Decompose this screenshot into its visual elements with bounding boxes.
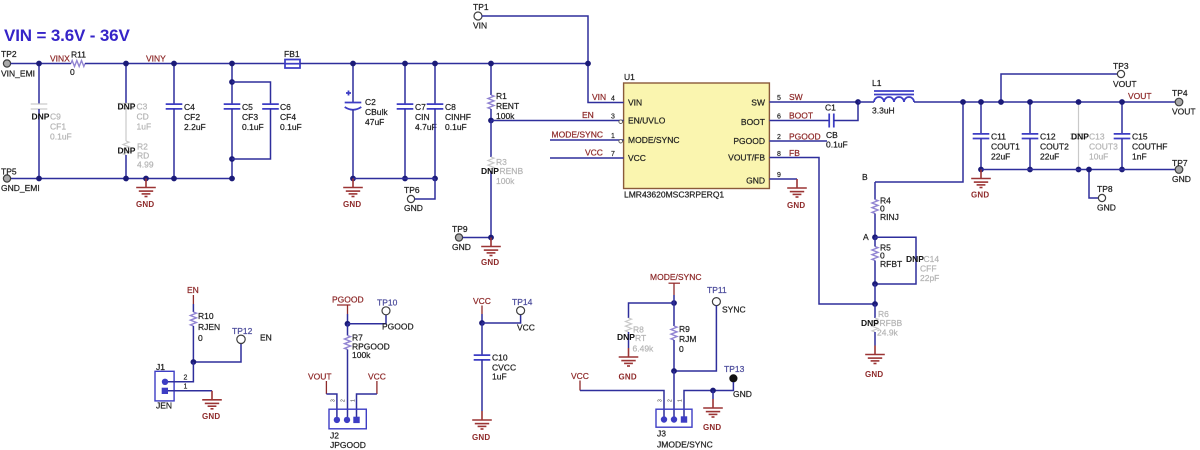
svg-text:EN/UVLO: EN/UVLO [628, 116, 666, 126]
svg-text:RT: RT [635, 333, 646, 343]
svg-text:SW: SW [789, 92, 803, 102]
ground R8 [619, 348, 639, 382]
resistor R3 (DNP ghost) [481, 121, 523, 238]
capacitor C4 [166, 61, 206, 182]
svg-text:B: B [862, 172, 868, 182]
svg-text:VIN_EMI: VIN_EMI [1, 69, 35, 79]
test point TP14 [479, 297, 535, 333]
wire VIN rail [300, 63, 588, 65]
svg-text:RJEN: RJEN [198, 322, 220, 332]
svg-text:4.7uF: 4.7uF [415, 122, 437, 132]
svg-text:VINX: VINX [50, 54, 70, 64]
svg-text:CF3: CF3 [242, 112, 258, 122]
svg-text:TP3: TP3 [1113, 61, 1129, 71]
svg-text:TP2: TP2 [1, 49, 17, 59]
svg-text:VOUT/FB: VOUT/FB [728, 153, 765, 163]
svg-text:1: 1 [184, 383, 188, 390]
test point TP13 [684, 364, 752, 419]
wire output GND rail [981, 169, 1175, 171]
test point TP2 [1, 49, 35, 79]
test point TP4 [1172, 88, 1196, 117]
svg-text:GND: GND [136, 200, 154, 209]
U1 pin names [628, 98, 679, 164]
wire SW pin 5 [769, 92, 858, 102]
svg-text:9: 9 [777, 172, 781, 179]
svg-text:VIN: VIN [628, 98, 642, 108]
svg-text:3.3uH: 3.3uH [872, 106, 895, 116]
svg-text:0: 0 [70, 67, 75, 77]
svg-text:C1: C1 [825, 103, 836, 113]
svg-text:PGOOD: PGOOD [382, 322, 414, 332]
svg-text:MODE/SYNC: MODE/SYNC [650, 272, 701, 282]
capacitor C1 [825, 99, 861, 149]
test point TP9 [452, 224, 494, 252]
svg-text:GND: GND [481, 258, 499, 267]
svg-text:22pF: 22pF [920, 273, 939, 283]
svg-text:TP4: TP4 [1172, 88, 1188, 98]
svg-text:GND_EMI: GND_EMI [1, 183, 40, 193]
test point TP5 [1, 167, 40, 194]
node EN label [187, 285, 199, 304]
svg-text:RJM: RJM [679, 334, 696, 344]
svg-text:TP1: TP1 [473, 2, 489, 12]
svg-text:JPGOOD: JPGOOD [330, 440, 366, 450]
svg-text:VIN: VIN [592, 92, 606, 102]
node PGOOD label [332, 295, 364, 315]
svg-text:CIN: CIN [415, 112, 430, 122]
wire J1 pin1 to gnd [168, 390, 212, 392]
svg-text:C8: C8 [445, 102, 456, 112]
svg-text:LMR43620MSC3RPERQ1: LMR43620MSC3RPERQ1 [624, 190, 724, 200]
svg-text:MODE/SYNC: MODE/SYNC [628, 135, 679, 145]
svg-text:TP11: TP11 [707, 285, 727, 295]
svg-text:0.1uF: 0.1uF [445, 122, 467, 132]
svg-text:0: 0 [198, 333, 203, 343]
svg-text:J3: J3 [657, 429, 666, 439]
svg-text:GND: GND [343, 200, 361, 209]
svg-text:0.1uF: 0.1uF [280, 122, 302, 132]
connector J1 [155, 362, 188, 411]
svg-text:10uF: 10uF [1089, 152, 1108, 162]
svg-text:FB: FB [789, 148, 800, 158]
svg-text:MODE/SYNC: MODE/SYNC [552, 130, 603, 140]
capacitor C8 [427, 61, 471, 182]
ground output [971, 170, 991, 200]
svg-text:GND: GND [452, 242, 471, 252]
svg-text:CINHF: CINHF [445, 112, 471, 122]
svg-text:6: 6 [777, 114, 781, 121]
svg-text:R1: R1 [496, 91, 507, 101]
svg-text:GND: GND [202, 412, 220, 421]
svg-text:VOUT: VOUT [1128, 91, 1152, 101]
test point TP8 [1086, 167, 1116, 213]
capacitor C7 [397, 61, 437, 182]
resistor R4 [872, 182, 899, 237]
resistor R7 [345, 324, 390, 418]
svg-text:3: 3 [658, 399, 664, 402]
svg-text:JEN: JEN [156, 401, 172, 411]
node B branch wire [862, 99, 966, 182]
svg-text:DNP: DNP [481, 166, 499, 176]
svg-text:J2: J2 [330, 431, 339, 441]
svg-text:C6: C6 [280, 102, 291, 112]
svg-text:CB: CB [826, 130, 838, 140]
svg-text:22uF: 22uF [991, 152, 1010, 162]
connector J3 [656, 399, 713, 450]
svg-text:VINY: VINY [146, 54, 166, 64]
ground J3 [703, 391, 723, 433]
svg-text:DNP: DNP [906, 254, 924, 264]
svg-text:EN: EN [582, 110, 594, 120]
svg-text:GND: GND [971, 191, 989, 200]
wire VCC to J3 pin3 [580, 391, 664, 420]
node A [863, 232, 878, 242]
svg-text:1uF: 1uF [492, 372, 507, 382]
node VCC label [473, 296, 491, 314]
svg-text:VCC: VCC [368, 372, 386, 382]
svg-text:TP6: TP6 [404, 185, 420, 195]
svg-text:CFF: CFF [920, 264, 937, 274]
resistor R11 [70, 50, 86, 78]
svg-text:VCC: VCC [473, 296, 491, 306]
capacitor C6 [232, 82, 302, 159]
svg-text:BOOT: BOOT [789, 111, 813, 121]
wire mid bottom rail [353, 178, 435, 180]
wire BOOT pin 6 [769, 111, 829, 121]
svg-text:GND: GND [787, 201, 805, 210]
svg-text:47uF: 47uF [365, 117, 384, 127]
ground J1 [202, 391, 222, 421]
connector J2 [329, 399, 366, 450]
svg-text:PGOOD: PGOOD [332, 295, 364, 305]
wire VIN pin 4 [585, 61, 624, 103]
svg-text:22uF: 22uF [1040, 152, 1059, 162]
svg-text:EN: EN [260, 333, 272, 343]
test point TP6 [404, 179, 435, 214]
svg-text:CF4: CF4 [280, 112, 296, 122]
svg-text:1nF: 1nF [1132, 152, 1147, 162]
wire FB node [872, 284, 878, 307]
svg-text:GND: GND [1097, 203, 1116, 213]
svg-text:0.1uF: 0.1uF [50, 132, 72, 142]
test point TP10 [345, 298, 414, 332]
node VCC label (J3) [571, 371, 589, 391]
svg-text:1: 1 [678, 399, 684, 402]
svg-text:DNP: DNP [617, 332, 635, 342]
wire MODE node [629, 295, 677, 326]
svg-text:DNP: DNP [32, 112, 50, 122]
svg-text:VCC: VCC [585, 148, 603, 158]
svg-text:RENT: RENT [496, 101, 519, 111]
svg-text:C10: C10 [492, 353, 508, 363]
wire VCC to J2 pin1 [357, 394, 377, 418]
inductor L1 [858, 78, 963, 116]
svg-text:TP5: TP5 [1, 167, 17, 177]
svg-text:FB1: FB1 [284, 49, 300, 59]
svg-text:1uF: 1uF [137, 122, 152, 132]
svg-text:TP12: TP12 [232, 326, 253, 336]
svg-text:4.99: 4.99 [137, 160, 154, 170]
resistor R5 [872, 237, 902, 284]
svg-text:RENB: RENB [500, 166, 524, 176]
capacitor C14 (DNP ghost, parallel loop) [872, 237, 939, 287]
svg-text:CF2: CF2 [184, 112, 200, 122]
capacitor C11 [973, 99, 1020, 172]
ground FB [865, 346, 885, 380]
svg-text:GND: GND [1172, 174, 1191, 184]
svg-text:COUTHF: COUTHF [1132, 142, 1167, 152]
resistor R9 [671, 324, 696, 371]
svg-text:TP9: TP9 [452, 224, 468, 234]
svg-text:0.1uF: 0.1uF [826, 140, 848, 150]
svg-text:7: 7 [611, 151, 615, 158]
svg-text:SW: SW [751, 98, 765, 108]
svg-text:VOUT: VOUT [1172, 107, 1196, 117]
svg-text:5: 5 [777, 95, 781, 102]
svg-text:C13: C13 [1089, 132, 1105, 142]
node MODE/SYNC label [650, 272, 701, 295]
test point TP1 [473, 2, 489, 31]
svg-text:R11: R11 [71, 50, 86, 60]
svg-text:2: 2 [184, 375, 188, 382]
svg-text:CF1: CF1 [50, 122, 66, 132]
svg-text:TP10: TP10 [377, 298, 398, 308]
svg-text:BOOT: BOOT [741, 117, 765, 127]
svg-text:R10: R10 [198, 311, 214, 321]
ground U1 pin 9 [769, 172, 806, 210]
wire bottom EMI rail [7, 178, 232, 180]
resistor R6 (DNP ghost) [861, 304, 903, 346]
svg-text:TP14: TP14 [512, 297, 533, 307]
svg-text:100k: 100k [352, 350, 371, 360]
svg-text:2.2uF: 2.2uF [184, 122, 206, 132]
wire VINY rail [85, 63, 285, 65]
svg-text:2: 2 [777, 134, 781, 141]
svg-text:VCC: VCC [517, 323, 535, 333]
svg-text:C5: C5 [242, 102, 253, 112]
svg-text:GND: GND [733, 389, 752, 399]
svg-text:U1: U1 [624, 72, 635, 82]
ground EMI [136, 176, 156, 209]
svg-text:PGOOD: PGOOD [789, 132, 821, 142]
svg-text:C4: C4 [184, 102, 195, 112]
svg-text:L1: L1 [872, 78, 882, 88]
svg-text:PGOOD: PGOOD [733, 136, 765, 146]
svg-text:C3: C3 [137, 102, 148, 112]
ground mid [343, 179, 363, 210]
capacitor C9 (DNP ghost) [31, 61, 72, 182]
wire EN pin 3 [491, 110, 624, 123]
svg-text:CBulk: CBulk [365, 107, 388, 117]
svg-text:C11: C11 [991, 132, 1006, 142]
capacitor C3 (DNP ghost) + resistor R2 (DNP ghost) [118, 61, 154, 182]
svg-text:R9: R9 [679, 324, 690, 334]
resistor R1 [488, 61, 519, 124]
resistor R10 [190, 304, 220, 362]
svg-text:A: A [863, 232, 869, 242]
capacitor C15 [1114, 99, 1168, 172]
svg-text:24.9k: 24.9k [877, 328, 899, 338]
svg-text:GND: GND [865, 370, 883, 379]
ferrite bead FB1 [284, 49, 300, 68]
svg-text:C14: C14 [924, 254, 940, 264]
svg-text:RINJ: RINJ [880, 212, 899, 222]
wire TP1 to VIN rail [482, 16, 588, 64]
svg-text:C2: C2 [365, 97, 376, 107]
svg-text:RFBB: RFBB [880, 318, 903, 328]
svg-text:VIN: VIN [473, 21, 487, 31]
svg-text:VIN = 3.6V - 36V: VIN = 3.6V - 36V [4, 26, 130, 45]
op-amp U1 body [624, 72, 770, 200]
svg-text:TP7: TP7 [1172, 158, 1188, 168]
wire FB pin 8 [769, 148, 875, 304]
wire to J3 pin2 [671, 368, 677, 419]
svg-text:COUT1: COUT1 [991, 142, 1020, 152]
test point TP3 [998, 61, 1137, 105]
ground below R3 [481, 238, 501, 268]
svg-text:8: 8 [777, 151, 781, 158]
svg-text:SYNC: SYNC [722, 305, 746, 315]
svg-text:COUT3: COUT3 [1089, 142, 1118, 152]
svg-text:TP8: TP8 [1097, 184, 1113, 194]
svg-text:4: 4 [611, 96, 615, 103]
svg-text:VCC: VCC [571, 371, 589, 381]
svg-text:1: 1 [611, 133, 615, 140]
svg-text:1: 1 [351, 399, 357, 402]
svg-text:C9: C9 [50, 112, 61, 122]
capacitor C10 [474, 323, 516, 411]
wire VCC pin 7 [550, 148, 624, 159]
svg-text:VOUT: VOUT [308, 372, 332, 382]
svg-text:GND: GND [472, 433, 490, 442]
svg-text:CD: CD [137, 112, 149, 122]
svg-text:3: 3 [611, 114, 615, 121]
svg-text:C12: C12 [1040, 132, 1056, 142]
node VOUT label (J2) [308, 372, 332, 395]
wire PGOOD pin 2 [769, 132, 827, 142]
wire VOUT to J2 pin3 [326, 394, 337, 418]
svg-text:2: 2 [341, 399, 347, 402]
ground C10 [472, 411, 492, 442]
wire J1 pin2 [168, 362, 193, 382]
svg-text:C7: C7 [415, 102, 426, 112]
svg-text:100k: 100k [496, 111, 515, 121]
svg-text:DNP: DNP [118, 102, 136, 112]
svg-text:TP13: TP13 [724, 364, 745, 374]
test point TP11 [674, 285, 746, 371]
svg-text:0.1uF: 0.1uF [242, 122, 264, 132]
test point TP7 [1172, 158, 1191, 184]
svg-text:EN: EN [187, 285, 199, 295]
svg-text:RFBT: RFBT [880, 259, 902, 269]
svg-text:VCC: VCC [628, 153, 646, 163]
capacitor C2 (polarized bulk) [345, 61, 389, 182]
svg-text:GND: GND [703, 423, 721, 432]
svg-text:DNP: DNP [1071, 132, 1089, 142]
svg-text:C15: C15 [1132, 132, 1148, 142]
svg-text:VOUT: VOUT [1113, 79, 1137, 89]
capacitor C13 (DNP ghost) [1070, 99, 1118, 172]
svg-text:J1: J1 [156, 362, 165, 372]
resistor R8 (DNP ghost) [617, 318, 654, 354]
svg-text:GND: GND [746, 176, 765, 186]
svg-text:COUT2: COUT2 [1040, 142, 1069, 152]
svg-text:DNP: DNP [861, 318, 879, 328]
svg-text:DNP: DNP [118, 146, 136, 156]
node VCC label (J2) [368, 372, 386, 395]
svg-text:GND: GND [619, 373, 637, 382]
svg-text:GND: GND [404, 203, 423, 213]
test point TP12 [191, 326, 272, 365]
svg-text:6.49k: 6.49k [633, 344, 655, 354]
wire MODE/SYNC pin 1 [550, 130, 624, 144]
svg-text:JMODE/SYNC: JMODE/SYNC [657, 440, 713, 450]
svg-text:3: 3 [331, 399, 337, 402]
svg-text:0: 0 [679, 344, 684, 354]
wire VIN_EMI rail [11, 63, 71, 65]
wire VOUT rail [963, 101, 1175, 103]
capacitor C12 [1022, 99, 1069, 172]
svg-text:2: 2 [668, 399, 674, 402]
capacitor C5 [224, 61, 264, 182]
svg-text:100k: 100k [496, 176, 515, 186]
